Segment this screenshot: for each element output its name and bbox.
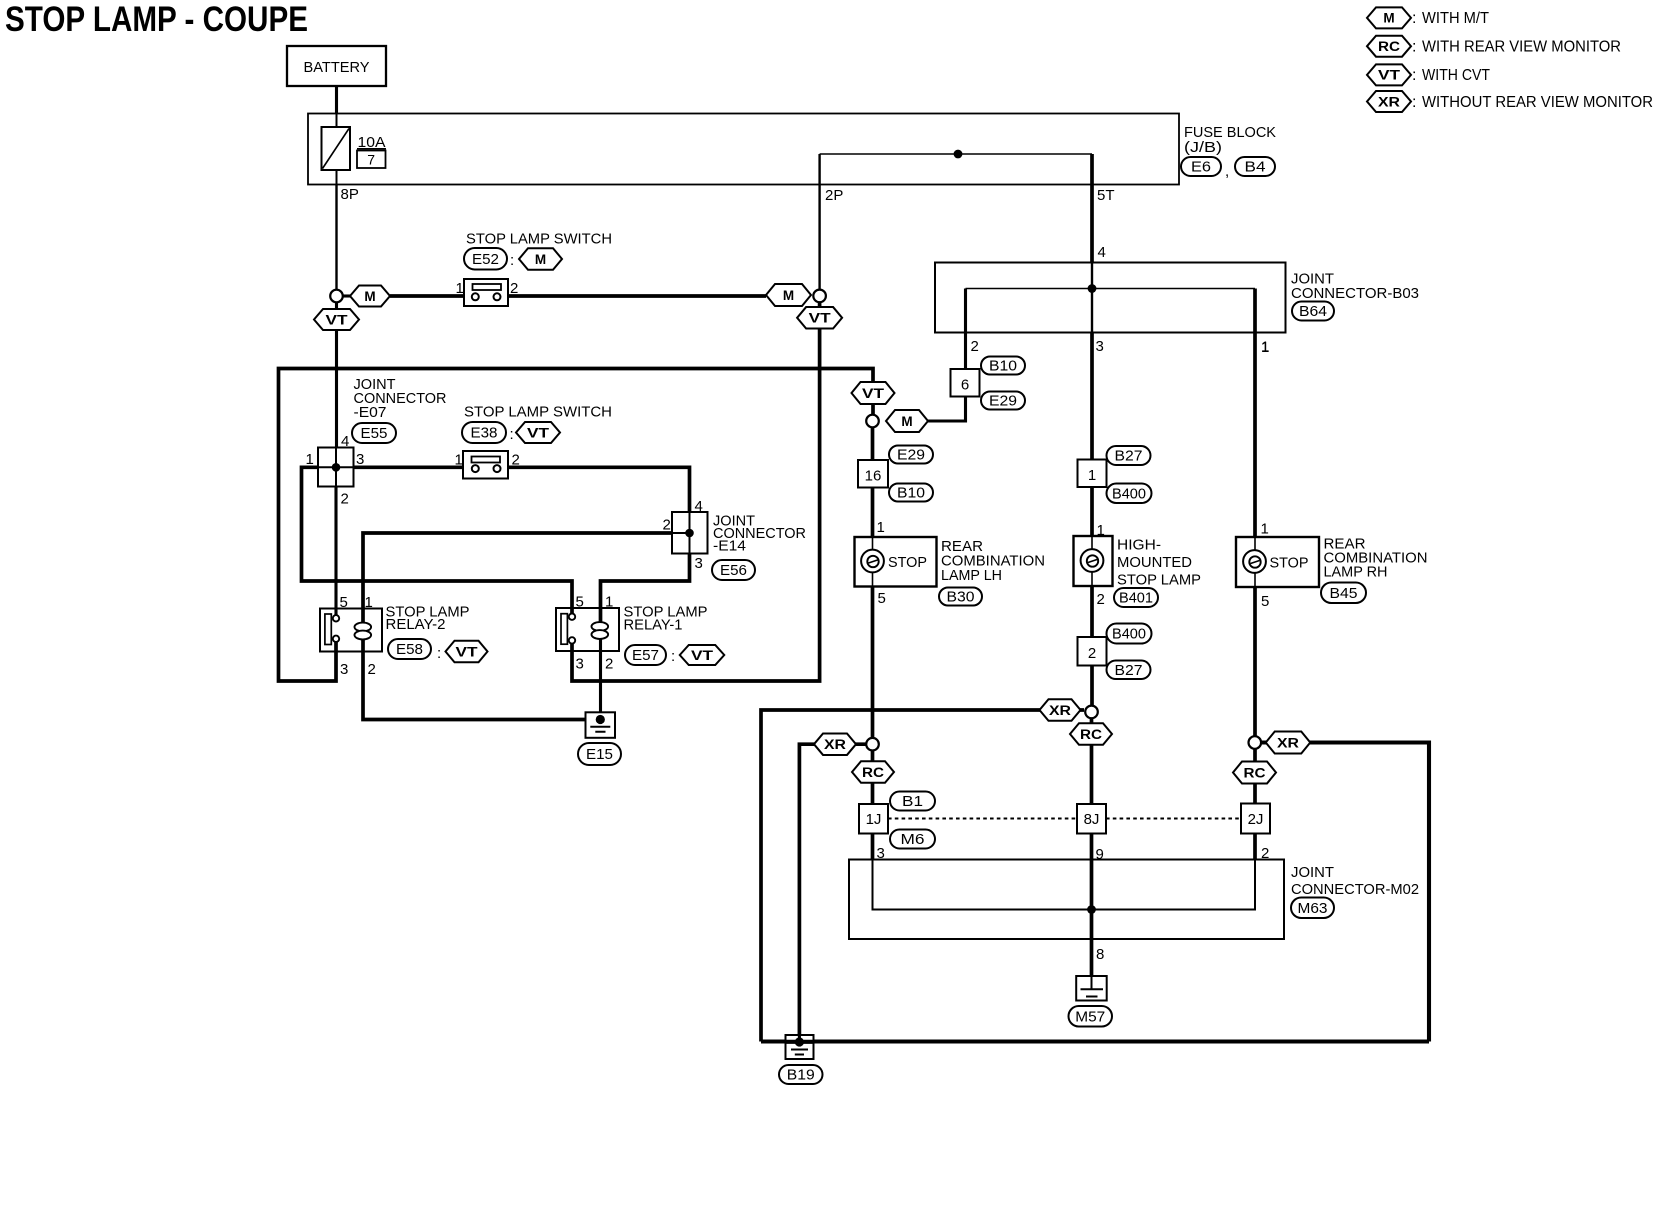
dashed link 1J to 8J (888, 818, 1077, 820)
svg-text:1: 1 (877, 519, 885, 536)
svg-text:JOINT: JOINT (1291, 864, 1334, 881)
svg-text:VT: VT (527, 425, 550, 440)
wire E07 pin2 to relay-2 contact (334, 487, 337, 617)
connector label B10 (16) (889, 484, 933, 502)
joint connector E07 (318, 448, 354, 487)
connector label E6 (1181, 157, 1221, 176)
svg-text:M63: M63 (1298, 901, 1328, 917)
svg-text:3: 3 (695, 555, 703, 572)
wire 8J through M02 to ground M57 (1090, 834, 1094, 977)
wire B03 pin1 down to rear combination lamp RH (1253, 289, 1257, 538)
joint connector E14 (672, 512, 708, 554)
svg-text:WITHOUT REAR VIEW MONITOR: WITHOUT REAR VIEW MONITOR (1422, 94, 1653, 111)
wire switch E38 to joint connector E14 pin 4 (508, 467, 690, 512)
connector label B400 (1) (1107, 484, 1152, 504)
svg-text:1: 1 (1088, 467, 1096, 484)
junction in M02 (1087, 905, 1096, 914)
svg-text:LAMP LH: LAMP LH (941, 567, 1002, 584)
svg-text:BATTERY: BATTERY (304, 59, 370, 76)
branch tag XR (lamp LH) (814, 733, 856, 755)
svg-text:,: , (1225, 163, 1229, 180)
connector label B1 (890, 792, 935, 811)
svg-text:2: 2 (368, 661, 376, 678)
svg-text:STOP LAMP: STOP LAMP (1117, 572, 1201, 589)
wire splice 2 to ground split node (1090, 666, 1094, 707)
connector label B10 (pin6) (981, 357, 1025, 375)
joint connector M02 (849, 860, 1284, 940)
svg-text:RELAY-1: RELAY-1 (624, 617, 683, 634)
svg-text:M: M (1383, 11, 1394, 26)
high-mounted stop lamp (1074, 536, 1113, 586)
svg-text:VT: VT (456, 644, 479, 659)
svg-text:M: M (364, 289, 375, 304)
svg-text:B27: B27 (1115, 449, 1143, 465)
svg-text:2: 2 (1088, 645, 1096, 662)
battery (287, 46, 386, 86)
fuse block label (1184, 124, 1276, 156)
svg-text:B19: B19 (787, 1068, 815, 1084)
svg-text:VT: VT (809, 311, 832, 326)
fuse block internal bus wire (820, 153, 1092, 155)
legend symbol XR (1367, 91, 1411, 112)
svg-text:MOUNTED: MOUNTED (1117, 554, 1192, 571)
svg-text:RC: RC (1244, 765, 1266, 780)
wire XR branch (lamp LH) to ground B19 (799, 744, 866, 1042)
branch tag XR (HM lamp) (1040, 699, 1081, 721)
svg-text:E6: E6 (1191, 160, 1211, 176)
svg-text:1: 1 (456, 280, 464, 297)
wire E07 pin1 to relay-1 contact (302, 467, 573, 614)
svg-text:4: 4 (341, 433, 349, 450)
wire E14 pin3 to relay-1 coil (601, 554, 690, 625)
wire 1J to joint connector M02 (871, 834, 875, 860)
connector label E38 (462, 422, 506, 443)
wire relay-1 coil to ground E15 (599, 639, 602, 720)
connector label B30 (939, 588, 982, 606)
svg-text:1: 1 (605, 594, 613, 611)
svg-text:5: 5 (878, 590, 886, 607)
connector label B400 (2) (1107, 624, 1152, 644)
svg-text:B10: B10 (897, 486, 925, 502)
connector label M6 (890, 830, 935, 849)
node HM lamp ground split (1085, 706, 1098, 719)
svg-text:1: 1 (1261, 521, 1269, 538)
connector label E55 (352, 423, 396, 443)
svg-text:5T: 5T (1097, 187, 1115, 204)
wire 5T feed to B03 pin 4 (1090, 154, 1094, 263)
svg-text:B30: B30 (947, 590, 975, 606)
wire relay-2 contact output loop to lamp feed node (279, 369, 874, 682)
svg-text:STOP LAMP SWITCH: STOP LAMP SWITCH (466, 231, 612, 248)
connector label B401 (1114, 588, 1158, 607)
svg-text:B1: B1 (902, 794, 923, 810)
stop lamp relay-1 E57 (556, 608, 619, 651)
svg-text:3: 3 (1096, 338, 1104, 355)
svg-text:VT: VT (326, 312, 349, 327)
wire 2J to joint connector M02 (1253, 834, 1257, 860)
branch tag M (left node) (350, 286, 390, 307)
svg-text:4: 4 (695, 498, 703, 515)
svg-text:3: 3 (340, 661, 348, 678)
svg-text::: : (1412, 67, 1416, 84)
svg-text::: : (510, 252, 514, 269)
svg-text:1J: 1J (866, 811, 882, 828)
connector label M57 (1069, 1006, 1113, 1027)
rear combination lamp RH (1236, 537, 1319, 587)
legend symbol M (1367, 7, 1411, 28)
svg-text:E57: E57 (632, 648, 659, 664)
junction in B03 (1088, 284, 1097, 293)
node lamp RH ground split (1249, 736, 1262, 749)
svg-text:3: 3 (576, 656, 584, 673)
svg-text:M: M (535, 252, 546, 267)
node lamp LH ground split (866, 738, 879, 751)
splice 8J (1077, 804, 1106, 834)
splice box 16 (858, 460, 888, 488)
condition tag VT (E58) (446, 641, 488, 663)
svg-text:WITH CVT: WITH CVT (1422, 67, 1490, 84)
connector label E52 (464, 248, 507, 270)
svg-text:M: M (901, 414, 912, 429)
svg-text:-E14: -E14 (713, 538, 746, 555)
connector label B4 (1235, 157, 1275, 176)
svg-text:M6: M6 (901, 832, 925, 848)
svg-text:(J/B): (J/B) (1184, 139, 1222, 156)
svg-text:VT: VT (691, 648, 714, 663)
stop lamp relay-1 label (624, 604, 708, 634)
junction in fuse block (954, 150, 963, 159)
svg-text::: : (510, 426, 514, 443)
wire E07 pin3 to stop lamp switch E38 (354, 465, 464, 469)
legend symbol VT (1367, 64, 1411, 85)
svg-text:1: 1 (1261, 339, 1269, 356)
svg-text:B27: B27 (1115, 663, 1143, 679)
svg-text:E15: E15 (586, 747, 613, 763)
wire B03 pin2 to M branch (886, 289, 966, 422)
fuse value 10A (357, 134, 386, 151)
branch tag RC (HM lamp) (1070, 723, 1112, 745)
condition tag VT (E38) (516, 422, 560, 443)
svg-text:M57: M57 (1075, 1009, 1105, 1025)
wire lamp LH to ground split node (871, 587, 875, 739)
branch tag M (2P node) (766, 284, 811, 306)
branch tag VT (left node) (314, 309, 359, 330)
svg-text:B400: B400 (1112, 627, 1146, 643)
wire fuse top stub (336, 114, 338, 128)
node lamp feed (866, 415, 879, 428)
wire splice 1 to high-mounted stop lamp (1090, 487, 1094, 536)
wire ground bus to B19 (761, 1039, 1429, 1043)
svg-text:E29: E29 (897, 448, 925, 464)
svg-text:1: 1 (365, 594, 373, 611)
svg-text:RELAY-2: RELAY-2 (386, 616, 446, 633)
connector label B27 (2) (1107, 661, 1151, 680)
svg-text:STOP: STOP (888, 554, 927, 571)
svg-text:RC: RC (862, 765, 884, 780)
wire lamp RH to ground split node (1253, 587, 1257, 737)
svg-text:4: 4 (1098, 244, 1106, 261)
wire VT branch down to E07 (335, 303, 338, 448)
legend symbol RC (1367, 36, 1411, 57)
svg-text:CONNECTOR-B03: CONNECTOR-B03 (1291, 285, 1419, 302)
branch tag VT (lamp feed) (852, 382, 895, 404)
svg-text:VT: VT (1378, 68, 1401, 83)
svg-text:B401: B401 (1119, 591, 1153, 607)
svg-text::: : (437, 645, 441, 662)
wire HM lamp to splice 2 (1090, 586, 1094, 637)
branch tag XR (lamp RH) (1266, 732, 1311, 754)
wire lamp feed node down to rear combination lamp LH (871, 427, 875, 537)
wire XR branch (HM lamp) to ground B19 (761, 710, 1084, 1042)
splice box 2 (1078, 637, 1107, 666)
svg-text:E29: E29 (989, 394, 1017, 410)
high-mounted stop lamp label (1117, 537, 1201, 589)
wire M switch row left (390, 294, 464, 298)
svg-text:2: 2 (971, 338, 979, 355)
ground B19 (786, 1035, 814, 1059)
wire RC branch lamp LH to joint 1J (871, 751, 875, 805)
svg-text:8J: 8J (1084, 811, 1100, 828)
joint connector M02 label (1291, 864, 1419, 898)
svg-text:16: 16 (865, 468, 882, 485)
wire battery to fuse block (335, 86, 338, 114)
svg-text:8P: 8P (341, 186, 359, 203)
svg-text:2J: 2J (1248, 811, 1264, 828)
wire switch to 2P node (508, 294, 766, 298)
svg-text:CONNECTOR-M02: CONNECTOR-M02 (1291, 881, 1419, 898)
connector label E57 (625, 645, 666, 665)
svg-text:8: 8 (1096, 946, 1104, 963)
svg-text:RC: RC (1378, 39, 1400, 54)
svg-text:1: 1 (455, 452, 463, 469)
connector label E29 (pin6) (981, 392, 1025, 410)
ground M57 (1076, 976, 1107, 1001)
svg-text:HIGH-: HIGH- (1117, 537, 1161, 554)
svg-text:5: 5 (340, 594, 348, 611)
svg-text:E58: E58 (396, 642, 423, 658)
svg-text:2: 2 (605, 656, 613, 673)
dashed link 8J to 2J (1106, 818, 1241, 820)
stop lamp switch E38 (463, 451, 508, 479)
fuse number 7 box (357, 151, 386, 169)
node battery feed split (330, 290, 343, 303)
joint connector B03 (935, 263, 1286, 333)
svg-text:5: 5 (1261, 593, 1269, 610)
svg-text::: : (671, 648, 675, 665)
svg-text::: : (1412, 10, 1416, 27)
svg-text::: : (1412, 94, 1416, 111)
svg-text:LAMP RH: LAMP RH (1324, 564, 1388, 581)
connector label B19 (779, 1065, 823, 1084)
wire RC branch HM lamp to joint 8J (1090, 718, 1094, 804)
svg-text::: : (1412, 39, 1416, 56)
svg-text:STOP: STOP (1270, 555, 1309, 572)
svg-text:XR: XR (1277, 735, 1299, 750)
ground E15 (586, 712, 616, 738)
joint connector B03 label (1291, 271, 1419, 303)
svg-text:5: 5 (576, 594, 584, 611)
stop lamp relay-2 E58 (320, 609, 382, 652)
fuse block (J/B) box (308, 114, 1179, 185)
condition tag VT (E57) (680, 645, 725, 665)
svg-text:WITH REAR VIEW MONITOR: WITH REAR VIEW MONITOR (1422, 39, 1621, 56)
wire 2P feed down (818, 154, 820, 293)
wire E14 pin2 to relay-2 coil (363, 533, 672, 624)
svg-text:E52: E52 (472, 252, 499, 268)
connector label E29 (16) (889, 446, 933, 464)
joint connector E07 label (354, 376, 447, 421)
svg-text:B45: B45 (1330, 586, 1358, 602)
svg-text:XR: XR (1049, 703, 1071, 718)
svg-text:WITH M/T: WITH M/T (1422, 10, 1489, 27)
wire XR branch (lamp RH) to ground B19 (1261, 743, 1429, 1042)
svg-text:6: 6 (961, 377, 969, 394)
branch tag M (lamp feed node) (886, 410, 928, 432)
svg-text:2: 2 (663, 517, 671, 534)
connector label B64 (1292, 302, 1334, 321)
splice 1J (859, 804, 888, 834)
wire RC branch lamp RH to joint 2J (1253, 749, 1257, 804)
connector label B27 (1) (1107, 446, 1151, 465)
connector label E56 (712, 560, 755, 580)
svg-text:E56: E56 (720, 563, 747, 579)
branch tag VT (2P node) (797, 307, 842, 329)
rear combination lamp RH label (1324, 536, 1428, 581)
svg-text:2P: 2P (825, 187, 843, 204)
svg-text:B10: B10 (989, 359, 1017, 375)
splice 2J (1241, 804, 1270, 834)
stop lamp relay-2 label (386, 604, 470, 634)
wire B03 pin3 down to splice 1 (1090, 333, 1094, 460)
svg-text:7: 7 (367, 152, 375, 168)
svg-text:2: 2 (1097, 591, 1105, 608)
svg-text:XR: XR (824, 737, 846, 752)
wire 8P feed (335, 185, 337, 294)
condition tag M (E52) (519, 248, 562, 270)
svg-text:2: 2 (341, 491, 349, 508)
svg-text:B64: B64 (1299, 304, 1327, 320)
svg-text:STOP LAMP SWITCH: STOP LAMP SWITCH (464, 404, 612, 421)
connector label E58 (388, 639, 431, 659)
rear combination lamp LH (855, 537, 937, 587)
svg-text:E55: E55 (361, 426, 388, 442)
connector label E15 (578, 743, 621, 765)
wire node stub to M (341, 294, 352, 297)
branch tag RC (lamp LH) (852, 761, 894, 783)
wire B03 pin4 to pin3 through (1091, 263, 1093, 333)
rear combination lamp LH label (941, 538, 1045, 584)
svg-text:B4: B4 (1245, 160, 1266, 176)
connector label B45 (1321, 583, 1366, 604)
svg-text:M: M (783, 288, 794, 303)
node 2P split (813, 290, 826, 303)
fuse 10A (322, 127, 351, 170)
branch tag RC (lamp RH) (1233, 762, 1276, 784)
svg-text:B400: B400 (1112, 486, 1146, 502)
wire VT branch 2P down and left to relay-1 (572, 302, 820, 681)
wire relay-2 coil to ground E15 (363, 639, 598, 720)
svg-text:RC: RC (1080, 727, 1102, 742)
svg-text:E38: E38 (471, 426, 498, 442)
svg-text:VT: VT (862, 386, 885, 401)
stop lamp switch E52 (464, 279, 508, 306)
connector label M63 (1291, 898, 1334, 919)
splice box 6 (951, 369, 980, 397)
wire fuse bottom stub (336, 170, 338, 185)
svg-text:-E07: -E07 (354, 404, 387, 421)
svg-text:STOP LAMP - COUPE: STOP LAMP - COUPE (5, 0, 308, 39)
svg-text:XR: XR (1378, 94, 1400, 109)
splice box 1 (1078, 460, 1107, 488)
joint connector E14 label (713, 513, 806, 555)
